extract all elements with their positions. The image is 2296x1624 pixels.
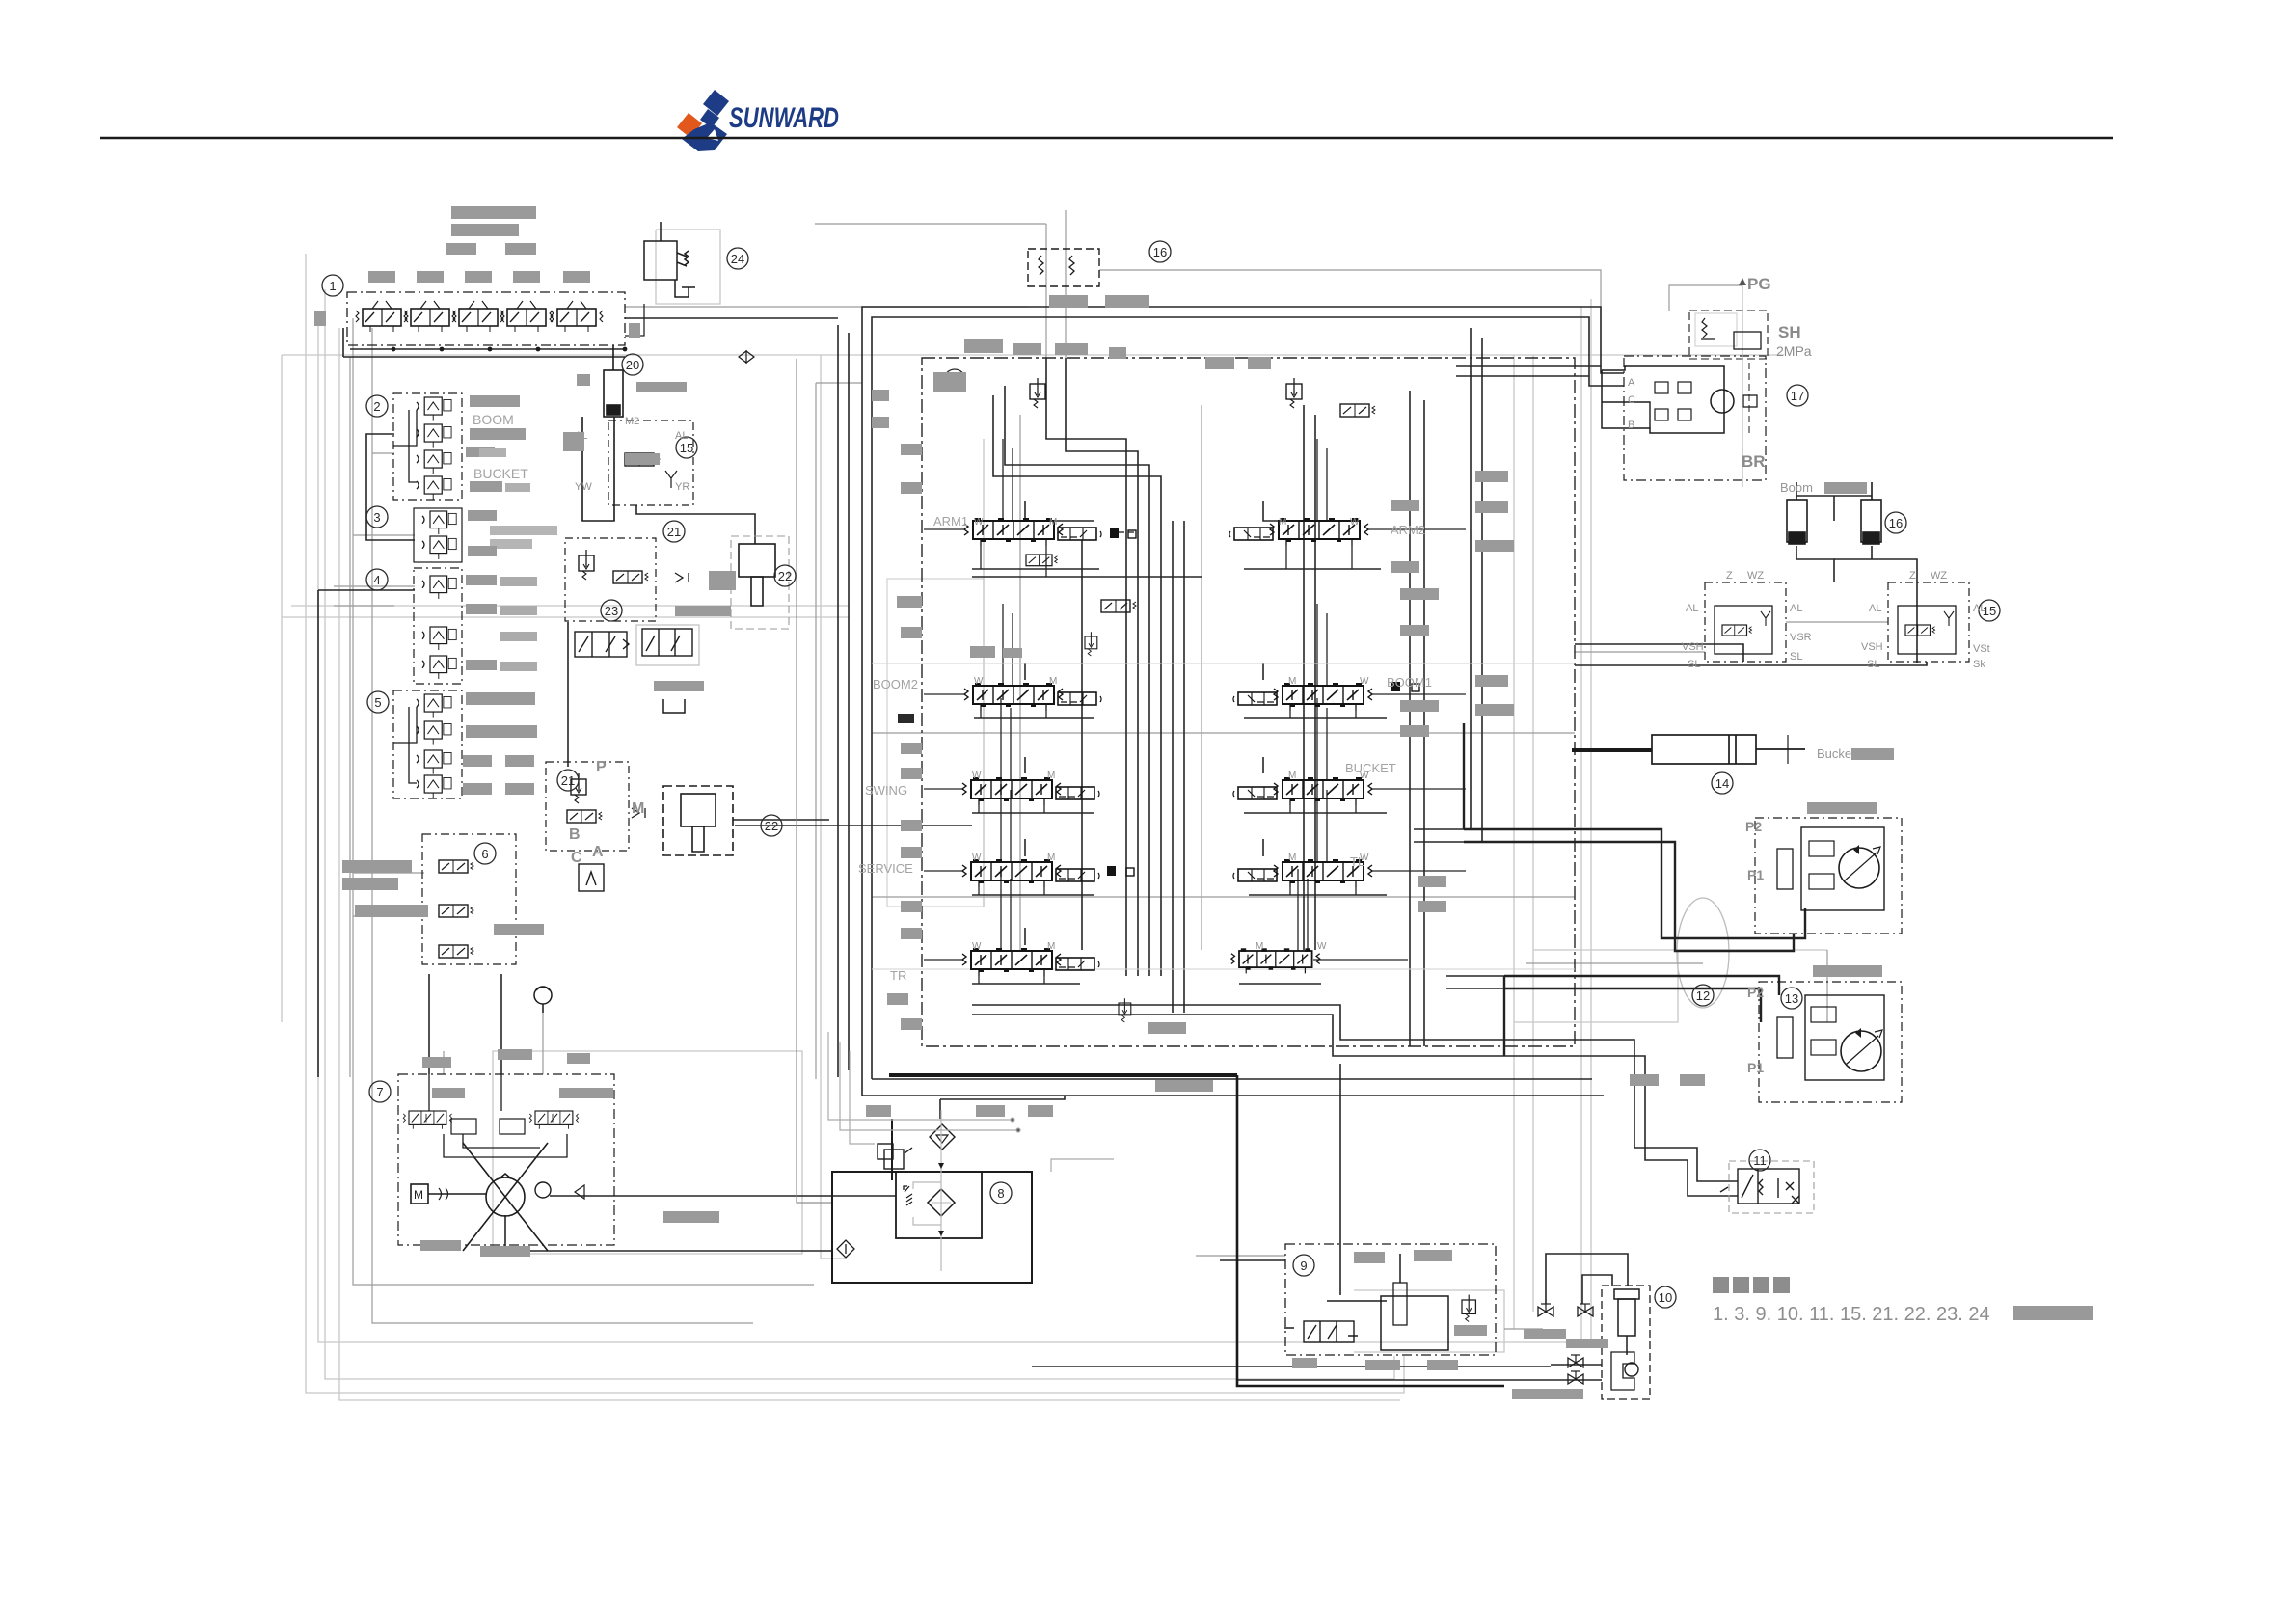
wire: light frame item7 bbox=[493, 1051, 802, 1254]
load valve 5b bbox=[417, 721, 451, 745]
wire: item7 pump outlet right bbox=[550, 1195, 896, 1197]
wire: left light vertical x292 bbox=[281, 355, 283, 1022]
pilot valve 1c bbox=[452, 301, 504, 332]
svg-text:15: 15 bbox=[680, 441, 693, 455]
circled item numbers bbox=[322, 241, 2000, 1308]
svg-text:W: W bbox=[972, 853, 982, 863]
wire: mid-gray loop bottom 2 bbox=[372, 328, 753, 1323]
wire: mid-gray loop bottom 1 bbox=[353, 318, 814, 1285]
svg-text:M: M bbox=[1279, 517, 1286, 528]
solenoid valve 6b bbox=[439, 905, 473, 917]
svg-text:AL: AL bbox=[1869, 603, 1881, 614]
TR main spool bbox=[962, 948, 1061, 976]
svg-text:BR: BR bbox=[1742, 452, 1766, 471]
section labels bbox=[473, 412, 1432, 983]
svg-text:YR: YR bbox=[675, 481, 689, 493]
BOOM2 compensator bbox=[1058, 692, 1101, 705]
wire: gray line under item9 bbox=[1196, 1255, 1285, 1257]
boom lock 15R solenoid bbox=[1905, 625, 1935, 636]
wire: row feeder rects bbox=[1025, 501, 1094, 521]
wire: gray feeders to pilot block 16 bbox=[1045, 224, 1047, 358]
BUCKET main spool bbox=[1274, 777, 1372, 805]
small valve 7c bbox=[451, 1119, 476, 1134]
svg-text:W: W bbox=[972, 771, 982, 781]
svg-text:W: W bbox=[1317, 941, 1327, 952]
wire: light vert x851 bbox=[821, 355, 845, 1259]
svg-text:SL: SL bbox=[1867, 659, 1879, 670]
counterbalance 12 bbox=[1809, 841, 1834, 856]
wire: rotary joint light ellipse bbox=[1677, 898, 1729, 1008]
relief valve manifold left bbox=[1030, 378, 1045, 408]
svg-text:W: W bbox=[1360, 771, 1369, 781]
ARM2 main spool bbox=[1270, 518, 1368, 546]
wire: light manifold echo rect bbox=[887, 579, 984, 907]
wire: light vertical x1570 bbox=[1513, 355, 1515, 1329]
load valve 2c bbox=[417, 450, 451, 474]
wire: gray long horizontal y930 bbox=[872, 896, 1575, 898]
load valve 4c bbox=[422, 656, 456, 679]
reducing valve block 9b bbox=[1381, 1254, 1448, 1350]
boom cylinder right 16 bbox=[1861, 482, 1881, 544]
svg-text:16: 16 bbox=[1153, 245, 1167, 259]
svg-text:BOOM2: BOOM2 bbox=[873, 677, 918, 691]
wire: light horiz y640 bbox=[282, 616, 849, 618]
svg-text:M: M bbox=[1288, 676, 1296, 687]
load valve 5d bbox=[417, 775, 451, 799]
pilot relief 17 valve bbox=[1734, 332, 1761, 349]
valve group 2 dashed box bbox=[393, 393, 462, 500]
svg-text:WZ: WZ bbox=[1931, 570, 1947, 582]
thick travel feeders left bbox=[1463, 723, 1465, 829]
thick travel line pair upper bbox=[1464, 829, 1805, 938]
wire: right column risers bbox=[1303, 405, 1305, 950]
check valve 21b out bbox=[632, 808, 645, 818]
travel brake valve 13 bbox=[1777, 1017, 1793, 1058]
boom lock block 15R inner bbox=[1898, 606, 1956, 654]
wire: gray lines item17 down bbox=[1669, 285, 1742, 311]
svg-text:17: 17 bbox=[1791, 389, 1804, 403]
port letter labels bbox=[569, 275, 1990, 1075]
wire: light loop 4 bbox=[339, 328, 1400, 1400]
svg-text:8: 8 bbox=[997, 1186, 1004, 1201]
svg-text:Boom: Boom bbox=[1780, 480, 1813, 495]
wire: item1 outlet bus to manifold bbox=[625, 317, 838, 319]
wire: manifold center risers bbox=[1046, 358, 1126, 976]
svg-text:C: C bbox=[1628, 394, 1635, 406]
svg-text:M: M bbox=[1049, 517, 1057, 528]
load valve 2b bbox=[417, 424, 451, 448]
svg-text:VSR: VSR bbox=[1790, 632, 1812, 643]
double arrow marker near manifold top bbox=[739, 351, 754, 363]
bucket cylinder 14 bbox=[1652, 735, 1805, 764]
svg-text:4: 4 bbox=[373, 573, 380, 587]
plug unit 22b bbox=[663, 786, 733, 855]
wire: row outlet stubs right column bbox=[1313, 529, 1466, 960]
pilot valve group 1 dashed box bbox=[347, 292, 625, 345]
check valve 21a bbox=[675, 573, 689, 582]
svg-text:Z: Z bbox=[1726, 570, 1733, 582]
junction dots item1 bbox=[392, 347, 628, 352]
wire: manifold bottom bus to item11 lower bbox=[972, 1015, 1738, 1196]
SUNWARD logo mark bbox=[677, 90, 729, 151]
return filter diamond bbox=[928, 1189, 955, 1216]
main control valve block 19 inner boundary bbox=[872, 317, 1624, 1079]
dark port marker bbox=[898, 714, 914, 723]
svg-text:SUNWARD: SUNWARD bbox=[729, 102, 839, 134]
load valve 4b bbox=[422, 627, 456, 650]
tank symbol T5 bbox=[663, 699, 685, 713]
wire: gray stub left of manifold bbox=[816, 382, 862, 384]
thick pump line drop bbox=[1237, 1075, 1504, 1386]
svg-text:SL: SL bbox=[1790, 651, 1802, 663]
wire: right risers pair bbox=[1409, 391, 1411, 1046]
svg-text:ARM1: ARM1 bbox=[933, 514, 968, 528]
wire: gray stub items 2-5 bbox=[372, 452, 394, 454]
SERVICE main spool bbox=[962, 859, 1061, 887]
wire: light line to item24 bbox=[656, 230, 720, 304]
svg-text:W: W bbox=[1360, 676, 1369, 687]
solenoid in 21b bbox=[567, 810, 602, 823]
gray chinese annotation blobs bbox=[314, 206, 1894, 1399]
boom lock block 15R dashed box bbox=[1888, 582, 1969, 662]
pilot check valve 11 dashed box bbox=[1729, 1161, 1814, 1213]
SERVICE check pair bbox=[1107, 866, 1134, 876]
boom lock 15L solenoid bbox=[1722, 625, 1752, 636]
wire: light travel crossing horizontals bbox=[1533, 949, 1827, 951]
breather valve item8 bbox=[878, 1119, 912, 1180]
svg-text:21: 21 bbox=[561, 773, 575, 788]
wire: gray long horizontal y760 bbox=[872, 732, 1575, 734]
counterbalance 13 bbox=[1811, 1007, 1836, 1022]
svg-text:B: B bbox=[569, 826, 581, 843]
hand pump circle 10 bbox=[1625, 1363, 1638, 1376]
svg-text:P2: P2 bbox=[1745, 819, 1762, 834]
cylinder name labels bbox=[1780, 480, 1855, 761]
boom lock valve 15a check bbox=[665, 471, 677, 488]
svg-text:7: 7 bbox=[376, 1085, 383, 1099]
wire: light echo lines center bbox=[983, 439, 985, 907]
wire: item17 feed lines bbox=[1456, 365, 1601, 367]
travel motor right 12 dashed box bbox=[1755, 818, 1902, 934]
svg-text:SL: SL bbox=[1688, 659, 1700, 670]
wire: boom cylinder center drop bbox=[1796, 546, 1834, 582]
svg-text:14: 14 bbox=[1715, 776, 1729, 791]
ARM1 compensator bbox=[1058, 528, 1101, 540]
svg-text:VSH: VSH bbox=[1861, 641, 1883, 653]
svg-text:W: W bbox=[1360, 853, 1369, 863]
svg-text:1: 1 bbox=[329, 279, 336, 293]
wire: manifold bottom bus to item11 upper bbox=[972, 1005, 1738, 1181]
wire: light horiz y628 bbox=[291, 605, 849, 607]
TRAVEL right spool bbox=[1231, 948, 1320, 973]
SERVICE compensator bbox=[1056, 869, 1099, 881]
SWING main spool bbox=[962, 777, 1061, 805]
svg-text:P2: P2 bbox=[1747, 985, 1764, 1000]
pilot relief 17 top dashed box bbox=[1689, 311, 1768, 359]
BOOM1 main spool bbox=[1274, 683, 1372, 711]
pilot source valve 21a dashed box bbox=[565, 538, 656, 621]
svg-text:M: M bbox=[1049, 676, 1057, 687]
svg-text:M: M bbox=[414, 1188, 423, 1202]
svg-text:M: M bbox=[632, 800, 644, 817]
svg-text:1. 3. 9. 10. 11. 15. 21. 22. 2: 1. 3. 9. 10. 11. 15. 21. 22. 23. 24 bbox=[1713, 1304, 1990, 1325]
wire: gray drop to item13 bbox=[1826, 950, 1828, 1022]
wire: gray center column manifold bbox=[1019, 415, 1021, 950]
svg-text:AL: AL bbox=[1686, 603, 1698, 614]
wire: gray line manifold top to right bbox=[625, 306, 1028, 308]
svg-text:ARM2: ARM2 bbox=[1391, 523, 1425, 537]
svg-text:BOOM1: BOOM1 bbox=[1387, 675, 1432, 690]
svg-text:SWING: SWING bbox=[865, 783, 907, 798]
pilot pump unit 17 body bbox=[1602, 366, 1724, 433]
svg-text:23: 23 bbox=[605, 604, 618, 618]
wire: gray feeds into tank bbox=[828, 1032, 1114, 1172]
svg-text:M: M bbox=[1288, 771, 1296, 781]
valve 23 left bbox=[575, 632, 629, 657]
travel motor right 12 inner box bbox=[1801, 827, 1884, 910]
wire: center bundle extra bbox=[1081, 540, 1083, 950]
svg-text:VSH: VSH bbox=[1682, 641, 1704, 653]
shut-off valve c2 bbox=[1568, 1371, 1583, 1384]
boom lock valve 15a dashed box bbox=[608, 420, 693, 505]
wire: bottom link to item10 bbox=[1032, 1366, 1551, 1367]
svg-text:20: 20 bbox=[626, 358, 639, 372]
wire: light frame around item9 bbox=[1354, 1290, 1504, 1352]
boom lock block 15L dashed box bbox=[1705, 582, 1786, 662]
svg-text:SH: SH bbox=[1778, 323, 1801, 341]
svg-text:2MPa: 2MPa bbox=[1776, 343, 1812, 359]
pilot valve 1b bbox=[404, 301, 456, 332]
wire: boom center to 15R bbox=[1834, 559, 1917, 663]
boom lock block 15L inner bbox=[1715, 606, 1772, 654]
ARM1 main spool bbox=[964, 518, 1063, 546]
travel motor right 12 motor bbox=[1839, 845, 1880, 888]
wire: long light horizontal bus bbox=[282, 354, 1784, 356]
wire: light vertical x1650 bbox=[1590, 299, 1592, 1342]
wire: light vertical x1590 bbox=[1532, 355, 1534, 1312]
technical notes title blob bbox=[1713, 1277, 1790, 1293]
suction strainer arrow bbox=[837, 1240, 854, 1258]
svg-text:M: M bbox=[1047, 941, 1055, 952]
svg-text:TR: TR bbox=[890, 968, 906, 983]
svg-text:P1: P1 bbox=[1747, 1060, 1764, 1075]
main control valve block 19 bottom bus 1 bbox=[862, 1095, 1604, 1096]
accumulator bbox=[534, 987, 552, 1013]
valve group 4 box bbox=[414, 568, 462, 684]
wire: manifold to item9 drop bbox=[1339, 1064, 1341, 1295]
wire: swing service cross line bbox=[735, 825, 972, 826]
svg-text:5: 5 bbox=[374, 695, 381, 710]
svg-text:W: W bbox=[1350, 517, 1360, 528]
plug unit 22a bbox=[731, 536, 789, 629]
wire: item9 internal bbox=[1327, 1300, 1387, 1302]
valve group 5 dashed box bbox=[393, 690, 462, 798]
wire: manifold center riser pair right bbox=[1172, 521, 1174, 1013]
pilot valve 1d bbox=[500, 301, 553, 332]
thick travel line pair lower bbox=[1504, 976, 1779, 995]
svg-text:B: B bbox=[1628, 420, 1634, 431]
pilot pump unit 17 inner dashed vertical bbox=[1748, 363, 1750, 433]
load valve 2d bbox=[417, 476, 451, 501]
svg-text:16: 16 bbox=[1889, 516, 1903, 530]
wire: pump suction tree bbox=[428, 1074, 430, 1111]
solenoid valve manifold center bbox=[1101, 600, 1136, 612]
return filter inner box bbox=[896, 1172, 982, 1238]
travel motor left 13 inner box bbox=[1805, 995, 1884, 1080]
solenoid valve 9a bbox=[1284, 1321, 1358, 1342]
wire: outer light loop left vertical bbox=[306, 254, 1404, 1393]
valve group 3 box bbox=[414, 508, 462, 562]
wire: gray travel link bbox=[1526, 962, 1703, 964]
solenoid valve 6a bbox=[439, 860, 473, 873]
svg-text:13: 13 bbox=[1785, 991, 1798, 1006]
pilot valve 1e bbox=[551, 301, 603, 332]
wire: gray line item10 left bbox=[1504, 1328, 1543, 1330]
solenoid valve manifold top right bbox=[1340, 404, 1375, 417]
wire: item21 drop line bbox=[567, 622, 569, 767]
gear pump circle bbox=[535, 1182, 551, 1198]
header rule bbox=[100, 137, 2113, 139]
wire: tank feed riser bbox=[939, 1099, 941, 1119]
wire: manifold internal horizontals bbox=[972, 568, 1099, 570]
boom lock valve 15a spool bbox=[625, 453, 660, 466]
wire: spool bottom stubs bbox=[979, 546, 1356, 984]
svg-text:M2: M2 bbox=[625, 416, 639, 427]
relief valve manifold mid bbox=[1085, 632, 1097, 656]
load valve 4a bbox=[422, 576, 456, 599]
boom lock 15R check bbox=[1944, 611, 1954, 626]
pilot block 9 dashed box bbox=[1285, 1244, 1496, 1355]
wire: cylinder20 to valve15a bbox=[582, 417, 614, 521]
wire: gray link item15 blocks bbox=[1786, 621, 1888, 623]
wire: light loop 3 right tall vertical bbox=[318, 307, 1581, 1342]
wire: item15 bottom runs bbox=[1575, 644, 1743, 662]
svg-text:VSt: VSt bbox=[1973, 643, 1990, 655]
pilot pump unit 17 dashed box bbox=[1624, 356, 1766, 480]
wire: row supply stubs left column bbox=[924, 529, 964, 960]
PG arrow bbox=[1739, 278, 1746, 285]
load valve 2a bbox=[417, 397, 451, 421]
pilot pump 17 port box bbox=[1743, 395, 1757, 407]
shut-off valve b2 bbox=[1578, 1304, 1593, 1316]
wire: item9 left feed bbox=[1220, 1259, 1285, 1261]
wire: item1 to item24 link bbox=[625, 304, 644, 336]
relief valve manifold right bbox=[1286, 378, 1302, 408]
pilot source valve 21b dashed box bbox=[546, 762, 629, 851]
svg-text:A: A bbox=[592, 844, 604, 860]
valve group 6 dashed box bbox=[422, 834, 516, 964]
svg-text:M: M bbox=[1288, 853, 1296, 863]
svg-text:22: 22 bbox=[765, 819, 778, 833]
valve 23 right bbox=[642, 629, 692, 656]
flushing unit 10 dashed box bbox=[1602, 1286, 1650, 1399]
solenoid valve 6c bbox=[439, 945, 473, 958]
pilot pump relief valve 7b bbox=[529, 1111, 578, 1129]
SWING compensator bbox=[1056, 787, 1099, 799]
main pump circle bbox=[463, 1143, 548, 1251]
svg-text:11: 11 bbox=[1753, 1153, 1767, 1168]
boom cylinder left 16 bbox=[1787, 482, 1807, 544]
wire: item2 manifold lines bbox=[393, 410, 417, 446]
travel motor left 13 motor bbox=[1841, 1028, 1882, 1071]
wire: light box item23 right bbox=[636, 625, 699, 665]
wire: lower travel feeders bbox=[1446, 975, 1504, 977]
wire: gray links item6 to bus bbox=[353, 872, 424, 874]
svg-text:W: W bbox=[972, 941, 982, 952]
TR compensator bbox=[1056, 958, 1099, 970]
pilot check valve 11 bbox=[1720, 1169, 1799, 1204]
pilot pump relief valve 7a bbox=[403, 1111, 451, 1129]
wire: light loop 2 bbox=[325, 289, 1394, 1379]
svg-text:A: A bbox=[1628, 377, 1635, 389]
svg-text:AL: AL bbox=[675, 430, 688, 442]
valve 24 box bbox=[644, 222, 695, 297]
wire: item1 group bus lines bbox=[350, 348, 625, 350]
svg-text:BUCKET: BUCKET bbox=[1345, 761, 1396, 775]
wire: tank internals bbox=[913, 1110, 944, 1271]
svg-text:6: 6 bbox=[481, 847, 488, 861]
wire: item7 pump drop bbox=[505, 1215, 831, 1251]
svg-text:C: C bbox=[571, 850, 582, 866]
BOOM1 check pair bbox=[1391, 682, 1419, 691]
shut-off valve b1 bbox=[1538, 1304, 1553, 1316]
BOOM2 main spool bbox=[964, 683, 1063, 711]
svg-text:21: 21 bbox=[667, 525, 681, 539]
thick bucket cylinder rod line bbox=[1572, 748, 1652, 752]
svg-text:2: 2 bbox=[373, 399, 380, 414]
svg-text:3: 3 bbox=[373, 510, 380, 525]
wire: item10 plumbing bbox=[1546, 1254, 1628, 1304]
wire: gray drop item7 bbox=[443, 1051, 445, 1074]
svg-text:YW: YW bbox=[575, 481, 592, 493]
svg-text:Z: Z bbox=[1909, 570, 1916, 582]
wire: item22 out right bbox=[733, 819, 829, 821]
wire: item5 internal tree bbox=[393, 707, 417, 743]
relief valve in 21b bbox=[571, 773, 586, 803]
pilot pump 17 gear pump bbox=[1711, 390, 1734, 413]
svg-text:BOOM: BOOM bbox=[473, 412, 514, 427]
travel brake valve 12 bbox=[1777, 849, 1793, 889]
svg-text:W: W bbox=[974, 676, 984, 687]
ARM1 check pair bbox=[1110, 528, 1136, 538]
wire: manifold inner gray horizontals bbox=[872, 663, 1575, 664]
pump group 7 dashed box bbox=[398, 1074, 614, 1245]
wire: spool top feeders left column bbox=[1001, 439, 1013, 951]
main control valve block 19 dashed boundary bbox=[922, 358, 1575, 1046]
svg-text:M: M bbox=[1256, 941, 1263, 952]
svg-text:P: P bbox=[596, 759, 607, 775]
filter bypass spring bbox=[904, 1186, 912, 1205]
svg-text:BUCKET: BUCKET bbox=[473, 466, 528, 481]
pilot relief 17 spring bbox=[1701, 318, 1715, 339]
svg-text:Bucket: Bucket bbox=[1817, 746, 1855, 761]
TL compensator bbox=[1233, 869, 1277, 881]
wire: valve15a to plug22a bbox=[636, 505, 755, 544]
wire: top bus to travel verticals bbox=[1470, 328, 1472, 829]
svg-text:Sk: Sk bbox=[1973, 659, 1985, 670]
pilot valve 1a bbox=[356, 301, 408, 332]
wire: left column feeders items2-5 bbox=[366, 434, 415, 540]
ARM1 pilot solenoid bbox=[1026, 555, 1057, 566]
drain valve manifold bottom bbox=[1119, 998, 1131, 1022]
svg-text:SERVICE: SERVICE bbox=[858, 861, 913, 876]
pilot manifold 16 dashed box bbox=[1028, 249, 1099, 286]
wire: travel feeder thin bbox=[1414, 828, 1464, 830]
BOOM1 compensator bbox=[1233, 692, 1277, 705]
shut-off valve c1 bbox=[1568, 1355, 1583, 1367]
svg-text:AL: AL bbox=[1790, 603, 1802, 614]
load valve 5a bbox=[417, 694, 451, 718]
